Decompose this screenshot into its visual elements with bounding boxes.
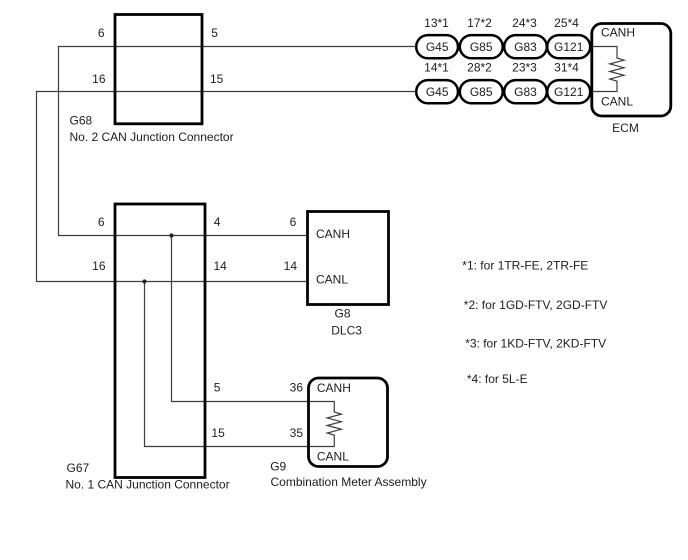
svg-text:G83: G83 [514,40,537,54]
svg-text:G9: G9 [270,459,286,473]
svg-text:CANH: CANH [316,227,350,241]
svg-text:DLC3: DLC3 [331,324,362,338]
svg-text:13*1: 13*1 [424,16,449,30]
svg-text:28*2: 28*2 [467,61,492,75]
svg-text:G8: G8 [334,307,350,321]
svg-text:*3: for 1KD-FTV, 2KD-FTV: *3: for 1KD-FTV, 2KD-FTV [465,336,606,350]
svg-text:CANL: CANL [601,94,633,108]
svg-text:36: 36 [290,381,304,395]
svg-text:*1: for 1TR-FE, 2TR-FE: *1: for 1TR-FE, 2TR-FE [462,258,588,272]
svg-text:G45: G45 [426,40,449,54]
svg-text:CANL: CANL [317,449,349,463]
svg-text:G121: G121 [554,40,584,54]
svg-text:G83: G83 [514,85,537,99]
svg-text:14*1: 14*1 [424,61,449,75]
svg-text:14: 14 [214,259,228,273]
svg-text:16: 16 [92,72,106,86]
svg-text:23*3: 23*3 [512,61,537,75]
svg-text:31*4: 31*4 [554,61,579,75]
svg-text:G85: G85 [470,85,493,99]
svg-text:6: 6 [98,215,105,229]
svg-text:CANL: CANL [316,272,348,286]
svg-text:24*3: 24*3 [512,16,537,30]
svg-text:G68: G68 [70,113,93,127]
svg-text:*4: for 5L-E: *4: for 5L-E [467,372,528,386]
svg-text:17*2: 17*2 [467,16,492,30]
svg-text:4: 4 [214,215,221,229]
svg-text:No. 1 CAN Junction Connector: No. 1 CAN Junction Connector [66,477,230,491]
svg-text:6: 6 [290,215,297,229]
svg-text:15: 15 [210,72,224,86]
svg-text:*2: for 1GD-FTV, 2GD-FTV: *2: for 1GD-FTV, 2GD-FTV [464,298,608,312]
svg-text:G67: G67 [67,461,90,475]
svg-text:25*4: 25*4 [554,16,579,30]
svg-text:G121: G121 [554,85,584,99]
svg-text:G85: G85 [470,40,493,54]
svg-text:35: 35 [290,426,304,440]
svg-text:No. 2 CAN Junction Connector: No. 2 CAN Junction Connector [70,130,234,144]
svg-text:Combination Meter Assembly: Combination Meter Assembly [271,475,427,489]
svg-text:5: 5 [214,381,221,395]
svg-text:CANH: CANH [601,26,635,40]
svg-text:15: 15 [211,426,225,440]
svg-text:16: 16 [92,259,106,273]
svg-text:14: 14 [284,259,298,273]
svg-text:ECM: ECM [612,121,639,135]
svg-text:CANH: CANH [317,381,351,395]
svg-text:5: 5 [211,26,218,40]
svg-text:6: 6 [98,26,105,40]
svg-text:G45: G45 [426,85,449,99]
